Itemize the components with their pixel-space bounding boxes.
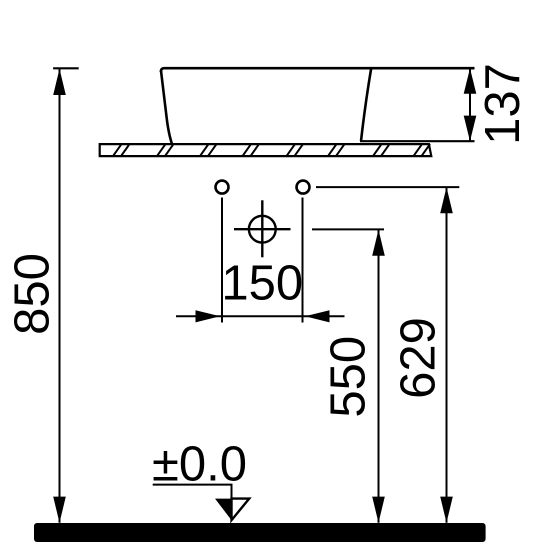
left hole vertical extension line (221, 198, 223, 323)
dimension 550 top arrow (372, 230, 385, 256)
dimension 550 bottom arrow (372, 497, 385, 523)
floor bar (34, 523, 486, 542)
dimension 150 left arrow (points right) (196, 310, 221, 322)
dimension 550 line (378, 230, 380, 523)
datum triangle open right half (232, 499, 250, 521)
dimension 850 top tick (53, 67, 79, 69)
dimension 150 line (176, 315, 345, 317)
svg-text:629: 629 (391, 317, 445, 399)
dimension 629 line (446, 187, 448, 523)
mounting hole circle left (216, 181, 229, 194)
550 extension line (312, 228, 384, 230)
dimension 629 top arrow (440, 187, 453, 213)
right hole vertical extension line (302, 198, 304, 323)
dimension 150 right arrow (points left) (305, 310, 330, 322)
svg-text:550: 550 (321, 336, 375, 418)
mounting hole circle right (297, 181, 310, 194)
datum underline (153, 485, 232, 499)
countertop slab outline (100, 144, 432, 156)
basin right silhouette curve (361, 68, 371, 141)
dimension 629 bottom arrow (440, 497, 453, 523)
datum triangle filled left half (215, 499, 232, 521)
629 extension line from right hole (316, 186, 459, 188)
dimension 137 upper arrow (464, 68, 477, 94)
dimension 137 lower arrow (464, 116, 477, 142)
svg-text:850: 850 (5, 253, 59, 335)
basin left silhouette curve (161, 70, 172, 144)
dimension 850 top arrow (53, 69, 66, 95)
svg-text:150: 150 (221, 257, 303, 311)
svg-text:±0.0: ±0.0 (152, 438, 247, 492)
dimension 850 bottom arrow (53, 497, 66, 523)
crosshair vertical line (261, 200, 263, 257)
crosshair horizontal line (234, 228, 291, 230)
basin bottom / 137 lower extension line (360, 140, 475, 142)
slab hatching (113, 144, 430, 156)
basin rim top line (164, 67, 475, 70)
dimension 137 line (469, 68, 471, 141)
tap hole crosshair circle (249, 216, 276, 243)
basin top-left rounded corner (161, 68, 164, 72)
dimension 850 line (59, 68, 61, 523)
svg-text:137: 137 (476, 63, 530, 145)
